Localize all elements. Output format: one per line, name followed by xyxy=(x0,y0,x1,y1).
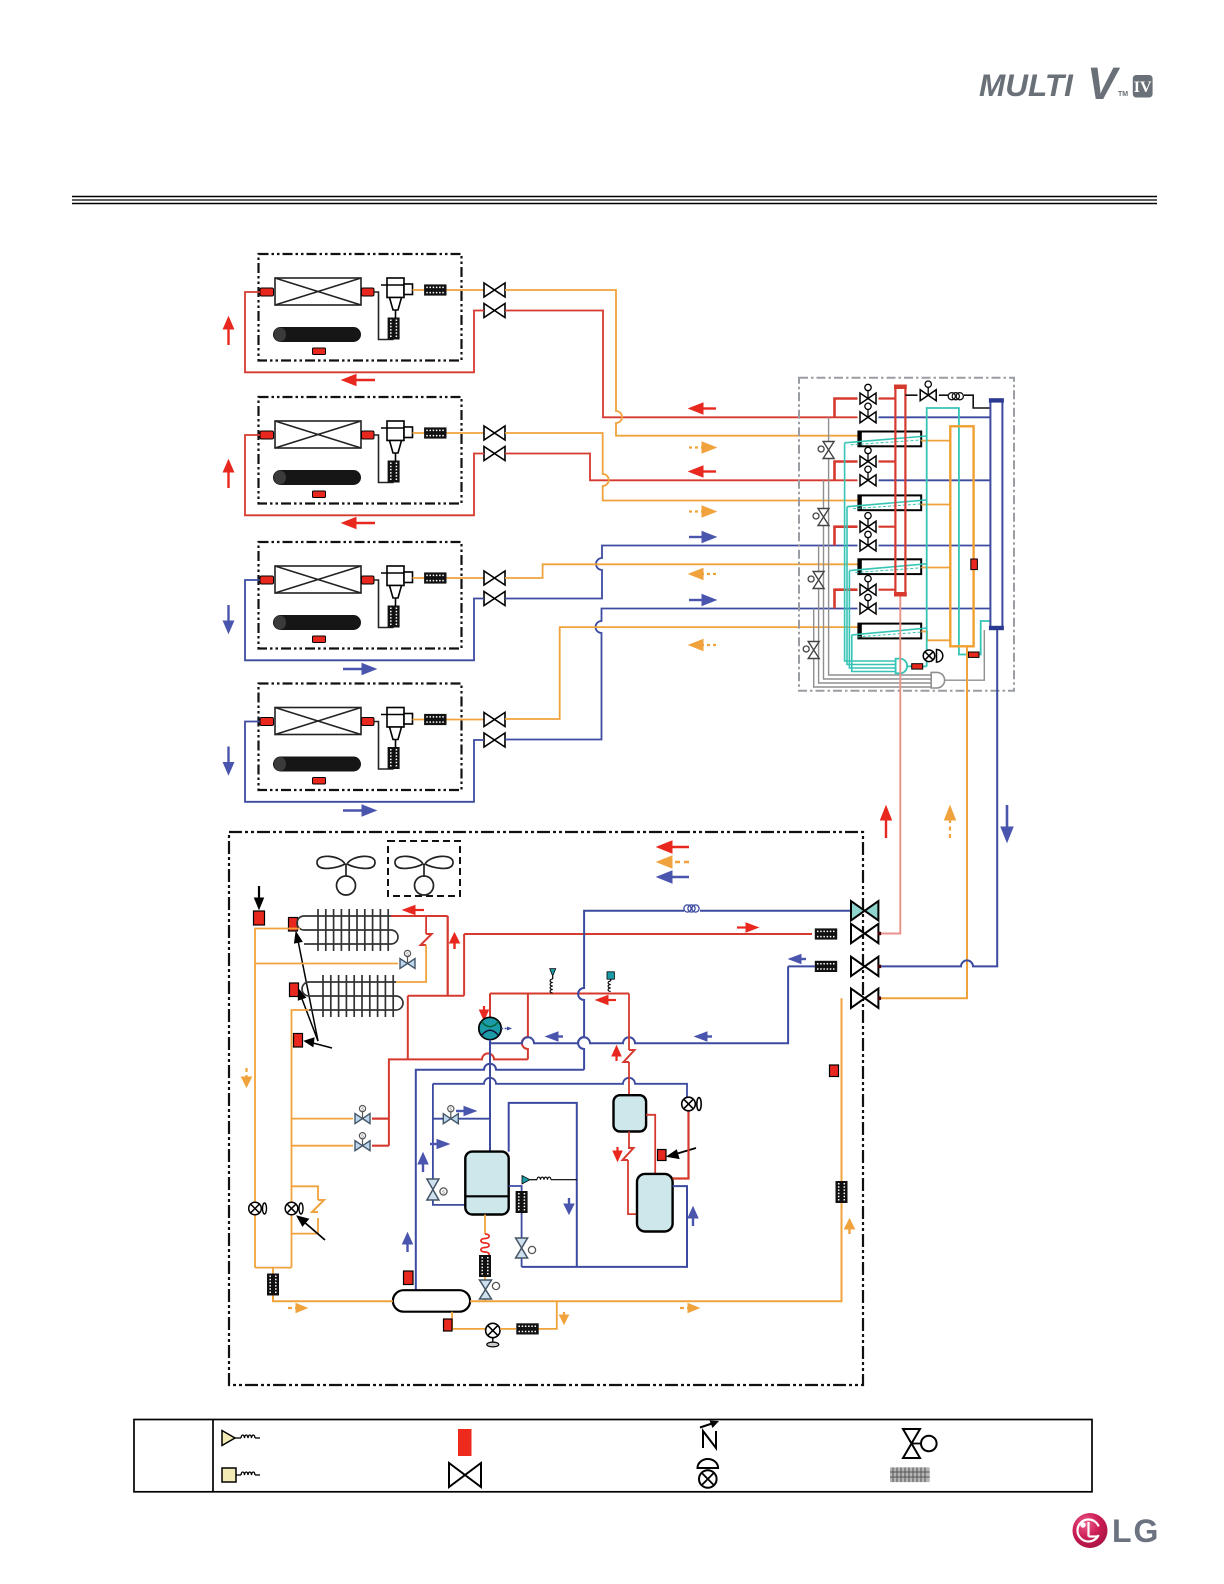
legend capillary symbol xyxy=(700,1421,719,1449)
oil return pipe xyxy=(433,1078,687,1097)
indoor unit 1 heat exchanger xyxy=(275,278,361,305)
coil1 liquid solenoid valve xyxy=(400,950,415,968)
unit4 liquid riser pipe to HR xyxy=(505,627,858,719)
indoor unit 2 flow arrow up xyxy=(223,460,233,488)
indoor unit 3 strainer xyxy=(424,572,446,583)
indoor unit 4 sensor left xyxy=(260,718,274,726)
inductor on gas service pipe xyxy=(684,905,699,912)
unit1 gas riser pipe to HR xyxy=(505,311,858,418)
strainer on drain xyxy=(500,1328,516,1330)
HR branch pipe unit3 xyxy=(835,527,858,546)
subcooler heat exchanger HX1 xyxy=(858,432,921,447)
solenoid valve high-pressure unit4 xyxy=(860,576,876,596)
HX2 internal subcool pipe (teal) xyxy=(847,500,927,507)
HR suction line out (navy) xyxy=(879,630,998,966)
sensor pointer line 1 xyxy=(295,932,319,1041)
indoor unit 4 enclosure xyxy=(259,684,462,791)
indoor unit 2 gas loop pipe xyxy=(245,435,484,515)
hot gas riser to 4way xyxy=(522,994,528,1060)
outdoor unit enclosure xyxy=(229,832,863,1385)
dashed arrow right on liquid line 2 xyxy=(680,1304,699,1313)
expansion valve EV2 xyxy=(813,509,829,526)
indoor unit 3 sensor left xyxy=(260,576,274,584)
unit2 liquid riser pipe to HR xyxy=(505,433,858,501)
HR high-pressure pipe unit4 xyxy=(879,589,896,591)
coil1 liquid pipe xyxy=(255,963,398,965)
indoor unit 1 gas shutoff valve xyxy=(484,304,505,318)
high pressure switch xyxy=(607,972,614,992)
indoor unit 3 gas shutoff valve xyxy=(484,592,505,606)
suction cross pipe to service valve3 xyxy=(490,966,788,1043)
legend table xyxy=(134,1420,1092,1492)
check valve on injection xyxy=(682,1097,702,1111)
HR high-pressure pipe unit2 xyxy=(879,460,896,462)
HR suction pipe unit4 xyxy=(879,608,991,610)
arrow down on oil equalizer xyxy=(560,1312,569,1324)
indoor unit 1 EEV pipe xyxy=(374,292,394,340)
indoor unit 4 EEV xyxy=(381,708,413,748)
indoor unit 3 flow arrow right xyxy=(343,664,376,675)
capillary Z down xyxy=(623,1148,634,1160)
indoor unit 2 sensor right xyxy=(362,431,375,439)
legend arrow navy left xyxy=(657,871,689,883)
solenoid valve suction unit3 xyxy=(860,531,876,551)
HR branch pipe unit2 xyxy=(835,462,858,481)
accumulator xyxy=(393,1290,470,1312)
suction drop from 4way to compressor xyxy=(489,1040,491,1152)
sensor pointer line 3 xyxy=(305,1038,333,1048)
legend sensor-box symbol xyxy=(222,1468,260,1482)
arrow left on coil1 pipe xyxy=(403,906,424,915)
vessel feed capillary line xyxy=(628,994,630,1051)
drain service valve xyxy=(486,1323,500,1347)
HX3 internal subcool pipe (teal) xyxy=(849,564,926,571)
sensor on liquid riser xyxy=(830,1065,839,1077)
main liquid line left xyxy=(273,1276,393,1301)
indoor unit 4 strainer xyxy=(424,714,446,725)
solenoid valve suction unit2 xyxy=(860,466,876,486)
MULTI V IV logo xyxy=(979,58,1153,109)
svg-text:S: S xyxy=(442,1190,445,1195)
indoor unit 2 enclosure xyxy=(259,397,462,504)
indoor unit 1 strainer xyxy=(424,284,446,295)
arrow up beside capillary xyxy=(612,1046,621,1061)
4-way reversing valve xyxy=(479,1017,512,1039)
strainer on vent xyxy=(516,1191,528,1213)
solenoid valve suction unit1 xyxy=(860,403,876,423)
indoor unit 3 EEV pipe xyxy=(374,580,394,628)
strainer on liquid riser xyxy=(836,1181,848,1203)
HR liquid branch pipe unit2 (gray) xyxy=(824,480,932,679)
indoor unit 3 gas loop pipe xyxy=(245,580,484,660)
indoor unit 2 EEV xyxy=(381,421,413,461)
capillary Z up xyxy=(624,1050,635,1062)
dashed arrow right on liquid line xyxy=(288,1304,307,1313)
HR unit enclosure xyxy=(799,378,1014,691)
HX1 liquid out pipe xyxy=(921,440,950,442)
high pressure sensor xyxy=(550,969,556,993)
indoor unit 1 flow arrow up xyxy=(223,317,233,345)
indoor unit 3 EEV coil block xyxy=(388,606,400,628)
svg-text:IV: IV xyxy=(1134,79,1152,96)
indoor unit 4 flow arrow right xyxy=(343,805,376,816)
HR branch pipe unit4 xyxy=(835,590,858,609)
HR gas pipe to suction header (black) xyxy=(905,395,990,408)
indoor unit 4 EEV coil block xyxy=(388,747,400,769)
indoor unit 2 heat exchanger xyxy=(275,421,361,448)
sensor pointer line 2 xyxy=(298,989,318,1041)
left liquid downcomer 1 xyxy=(255,929,300,1268)
arrow right above compressor xyxy=(430,1140,449,1149)
indoor unit 1 EEV xyxy=(381,278,413,318)
HR suction pipe unit2 xyxy=(879,479,991,481)
flow arrow blue right line4 xyxy=(689,595,716,606)
capillary Z yellow xyxy=(312,1200,324,1212)
gas service pipe from valve1 xyxy=(578,911,851,1070)
indoor unit 2 cylinder sensor xyxy=(313,491,326,498)
indoor unit 4 cylinder sensor xyxy=(313,778,326,785)
outdoor fan 1 xyxy=(317,856,375,895)
arrow left at valve3 corner xyxy=(789,955,806,964)
coil1 capillary branch xyxy=(425,916,427,934)
arrow left on suction cross pipe xyxy=(546,1032,563,1041)
solenoid valve suction unit4 xyxy=(860,594,876,614)
arrow down beside capillary xyxy=(613,1147,622,1161)
shutoff valve on downcomer 2 xyxy=(285,1202,303,1215)
strainer on liquid line left xyxy=(267,1274,279,1296)
indoor unit 3 liquid shutoff valve xyxy=(484,571,505,585)
coil sensor 3 xyxy=(294,1034,303,1048)
low pressure sensor xyxy=(522,1176,577,1185)
outdoor coil 2 xyxy=(302,975,403,1017)
arrow down on injection riser xyxy=(564,1198,574,1214)
legend shutoff valve xyxy=(449,1463,481,1487)
flow arrow yellow dashed left line3 xyxy=(689,569,716,580)
indoor unit 2 flow arrow left xyxy=(342,518,375,529)
HR teal to suction header link xyxy=(980,621,991,655)
coil sensor 1 xyxy=(289,918,298,932)
indoor unit 2 EEV coil block xyxy=(388,461,400,483)
indoor unit 2 liquid shutoff valve xyxy=(484,426,505,440)
strainer on oil drain xyxy=(479,1255,491,1277)
HR subcooled liquid header (orange) xyxy=(950,426,973,646)
suction pipe to accumulator xyxy=(416,1064,584,1291)
arrow up beside defrost riser xyxy=(450,933,460,949)
pointer arrow to valve xyxy=(297,1216,325,1240)
HR liquid line out (salmon) xyxy=(879,597,901,934)
HX4 internal subcool pipe (teal) xyxy=(852,628,927,635)
service valve 1 (gas) xyxy=(851,901,878,920)
flow arrow yellow dashed left line4 xyxy=(689,640,716,651)
oil equalizer drop xyxy=(539,1301,557,1329)
HX2 expansion return pipe (teal) xyxy=(847,507,896,665)
indoor unit 4 fan cylinder xyxy=(273,757,361,772)
oil drain valve xyxy=(480,1280,500,1299)
capillary bypass loop on downcomer 2 xyxy=(292,1186,319,1233)
legend strainer xyxy=(890,1467,930,1482)
discharge pipe to gas service valve xyxy=(464,933,812,935)
legend red sensor xyxy=(458,1429,472,1456)
LG logo xyxy=(1073,1513,1161,1549)
oil valve vertical xyxy=(427,1179,447,1200)
ambient sensor arrow xyxy=(255,886,264,909)
unit1 liquid riser pipe to HR xyxy=(505,290,858,436)
indoor unit 4 flow arrow down xyxy=(223,747,233,775)
subcooler heat exchanger HX3 xyxy=(858,559,921,574)
coil1 defrost riser xyxy=(447,916,449,996)
svg-text:LG: LG xyxy=(1112,1513,1160,1549)
arrow up on liquid riser xyxy=(845,1219,855,1234)
strainer before valve3 xyxy=(815,961,837,972)
capillary Z red xyxy=(421,934,432,945)
svg-text:TM: TM xyxy=(1118,91,1128,98)
economizer vessel xyxy=(637,1174,673,1232)
HX1 internal subcool pipe (teal) xyxy=(845,436,927,443)
capillary outlet yellow xyxy=(396,945,426,982)
vessel1 outlet to economizer xyxy=(646,1115,655,1174)
indoor unit 1 gas loop pipe xyxy=(245,292,484,372)
indoor unit 1 liquid shutoff valve xyxy=(484,283,505,297)
coil1 hot gas pipe xyxy=(391,915,448,917)
indoor unit 4 gas loop pipe xyxy=(245,722,484,802)
HR branch pipe unit1 xyxy=(835,399,858,418)
crankcase heater coil xyxy=(481,1234,489,1257)
indoor unit 3 cylinder sensor xyxy=(313,636,326,643)
indoor unit 3 sensor right xyxy=(362,576,375,584)
service valve 2 (high pressure) xyxy=(851,924,881,943)
compressor vent to injection line xyxy=(509,1186,522,1191)
oil bypass to suction xyxy=(433,1118,490,1120)
solenoid valve high-pressure unit1 xyxy=(860,384,876,404)
indoor unit 1 fan cylinder xyxy=(273,327,361,342)
indoor unit 2 sensor left xyxy=(260,431,274,439)
indoor unit 3 fan cylinder xyxy=(273,615,361,630)
HR bypass manifold (gray) xyxy=(931,672,944,688)
compressor xyxy=(465,1152,508,1215)
sensor on economizer feed xyxy=(658,1150,667,1161)
expansion valve EV4 xyxy=(803,642,819,659)
arrow up left of compressor xyxy=(418,1153,428,1172)
indoor unit 2 gas shutoff valve xyxy=(484,447,505,461)
sensor on accumulator drain xyxy=(444,1319,453,1331)
indoor unit 4 heat exchanger xyxy=(275,708,361,735)
indoor unit 1 sensor left xyxy=(260,288,274,296)
legend thermistor symbol xyxy=(222,1431,260,1446)
HR liquid branch pipe unit4 (gray) xyxy=(814,609,931,688)
sensor on orange header xyxy=(971,559,978,570)
solenoid valve high-pressure unit3 xyxy=(860,513,876,533)
top rule xyxy=(72,197,1157,204)
economizer gas return xyxy=(509,1103,687,1267)
main liquid line right xyxy=(470,998,841,1301)
HR solenoid valve to suction header xyxy=(920,381,936,401)
legend check valve symbol xyxy=(698,1459,719,1488)
arrow up on accumulator inlet xyxy=(403,1233,413,1252)
indoor unit 2 strainer xyxy=(424,427,446,438)
indoor unit 3 enclosure xyxy=(259,542,462,649)
indoor unit 1 enclosure xyxy=(259,254,462,361)
arrow left on discharge header xyxy=(596,996,616,1005)
legend electronic expansion valve xyxy=(903,1429,937,1458)
HR suction header (navy) xyxy=(990,400,1002,628)
HR suction pipe unit3 xyxy=(879,545,991,547)
yellow dashed arrow down xyxy=(242,1068,252,1087)
sensor on accumulator inlet xyxy=(404,1271,414,1285)
HR high-pressure pipe unit3 xyxy=(879,526,896,528)
hot gas header left xyxy=(389,916,528,1146)
sensor on teal suction link xyxy=(968,652,979,657)
vessel1 bottom capillary xyxy=(628,1132,630,1149)
indoor unit 1 sensor right xyxy=(362,288,375,296)
HX4 liquid out pipe xyxy=(921,632,950,641)
service valve 4 (liquid) xyxy=(851,989,881,1008)
indoor unit 3 EEV xyxy=(381,566,413,606)
left liquid downcomer 2 xyxy=(292,1010,310,1268)
indoor unit 1 EEV coil block xyxy=(388,318,400,340)
indoor unit 4 gas shutoff valve xyxy=(484,733,505,747)
indoor unit 3 liquid pipe xyxy=(413,577,485,579)
indoor unit 4 EEV pipe xyxy=(374,722,394,770)
accumulator drain xyxy=(452,1312,486,1329)
indoor unit 1 liquid pipe xyxy=(413,289,485,291)
unit3 gas riser pipe to HR xyxy=(505,546,858,599)
indoor unit 2 liquid pipe xyxy=(413,432,485,434)
service valve 3 (low pressure) xyxy=(851,957,881,976)
subcooler heat exchanger HX4 xyxy=(858,624,921,639)
4-way valve port stub xyxy=(489,994,491,1018)
expansion valve EV3 xyxy=(808,572,824,589)
liquid injection valve A xyxy=(292,1118,354,1120)
indoor unit 4 sensor right xyxy=(362,718,375,726)
indoor unit 3 flow arrow down xyxy=(223,605,233,633)
strainer on discharge xyxy=(815,928,837,939)
expansion valve EV1 xyxy=(818,442,834,459)
ambient sensor xyxy=(254,911,265,925)
indoor unit 1 cylinder sensor xyxy=(313,348,326,355)
HX3 liquid out pipe xyxy=(921,567,950,569)
HR liquid return manifold (teal) xyxy=(896,659,908,674)
legend arrow yellow dashed left xyxy=(657,856,689,868)
HX1 expansion return pipe (teal) xyxy=(845,443,896,661)
subcool vessel 1 xyxy=(614,1095,647,1131)
HR check valve symbol xyxy=(923,649,943,662)
unit3 liquid riser pipe to HR xyxy=(505,564,858,578)
solenoid valve high-pressure unit2 xyxy=(860,447,876,467)
economizer check valve line xyxy=(673,1111,689,1179)
liquid injection valve B xyxy=(292,1145,354,1147)
flow arrow red left line2 xyxy=(689,466,716,477)
riser arrow red up xyxy=(881,806,892,838)
riser arrow yellow dashed up xyxy=(945,806,956,838)
arrow left on suction cross pipe 2 xyxy=(695,1032,712,1041)
riser arrow navy down xyxy=(1001,805,1013,842)
legend arrow red left xyxy=(657,841,689,853)
outdoor coil 1 xyxy=(297,909,398,951)
downcomer junction pipe xyxy=(255,1268,292,1276)
shutoff valve on downcomer 1 xyxy=(249,1202,267,1215)
HR suction gas pipe (teal loop) xyxy=(927,408,968,666)
HR liquid header (red) xyxy=(895,386,905,594)
HR subcooled liquid line out (orange) xyxy=(879,646,968,998)
arrow right on oil bypass xyxy=(456,1107,476,1116)
outdoor fan 2 (optional, dashed box) xyxy=(388,841,460,896)
HX3 expansion return pipe (teal) xyxy=(849,571,895,668)
indoor unit 4 liquid shutoff valve xyxy=(484,713,505,727)
coil sensor 2 xyxy=(290,983,299,997)
svg-text:V: V xyxy=(1087,58,1121,109)
discharge header to 4way xyxy=(490,993,629,995)
HX2 liquid out pipe xyxy=(921,504,950,506)
arrow down into 4way xyxy=(480,1006,489,1020)
HR high-pressure pipe unit1 xyxy=(879,397,896,399)
arrow right on discharge xyxy=(737,923,758,932)
flow arrow red left line1 xyxy=(689,403,716,414)
HR liquid branch pipe unit3 (gray) xyxy=(819,546,931,684)
pointer arrow to sensor xyxy=(667,1148,696,1159)
oil line down to compressor xyxy=(433,1084,465,1205)
arrow up on economizer return xyxy=(688,1207,698,1226)
HX4 expansion return pipe (teal) xyxy=(852,635,896,672)
oil bypass solenoid valve xyxy=(443,1106,458,1124)
unit4 gas riser pipe to HR xyxy=(505,609,858,740)
indoor unit 4 liquid pipe xyxy=(413,719,485,721)
subcooler heat exchanger HX2 xyxy=(858,495,921,510)
indoor unit 1 flow arrow left xyxy=(342,375,375,386)
HR liquid branch pipe unit1 (gray) xyxy=(829,417,931,675)
manifold outlet sensor xyxy=(908,665,927,667)
vent valve xyxy=(516,1238,536,1258)
indoor unit 2 fan cylinder xyxy=(273,470,361,485)
flow arrow yellow dashed right line1 xyxy=(689,442,716,453)
compressor oil drain xyxy=(484,1215,486,1235)
flow arrow blue right line3 xyxy=(689,532,716,543)
unit2 gas riser pipe to HR xyxy=(505,454,858,481)
HR bypass pipe to suction header (gray) xyxy=(945,630,985,680)
HR capillary coil (inductor) xyxy=(948,393,963,400)
flow arrow yellow dashed right line2 xyxy=(689,506,716,517)
indoor unit 3 heat exchanger xyxy=(275,566,361,593)
svg-text:MULTI: MULTI xyxy=(979,67,1074,103)
HR suction pipe unit1 xyxy=(879,416,991,418)
indoor unit 2 EEV pipe xyxy=(374,435,394,483)
